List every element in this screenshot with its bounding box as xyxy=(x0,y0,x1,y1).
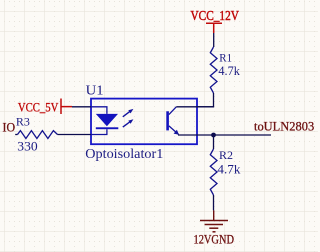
wire IO to R3 xyxy=(15,134,17,136)
phototransistor emitter xyxy=(169,126,179,134)
ground stem xyxy=(213,210,215,220)
svg-text:4.7k: 4.7k xyxy=(218,64,240,78)
emitter arrowhead xyxy=(174,130,179,135)
svg-text:IO: IO xyxy=(3,120,16,135)
svg-text:Optoisolator1: Optoisolator1 xyxy=(85,147,163,162)
wire junction to R2 xyxy=(213,135,215,149)
LED cathode lead xyxy=(91,129,107,134)
svg-text:4.7k: 4.7k xyxy=(217,162,241,176)
ground bar 4 xyxy=(213,231,216,233)
wire emitter to toULN2803 xyxy=(178,134,271,136)
ground bar 3 xyxy=(209,227,218,229)
optoisolator U1 body xyxy=(91,99,197,145)
svg-text:330: 330 xyxy=(17,140,37,154)
svg-text:U1: U1 xyxy=(86,82,104,97)
resistor R3 xyxy=(18,131,58,139)
wire collector to R1 column xyxy=(176,106,213,108)
power port VCC_12V bar symbol xyxy=(206,23,222,33)
resistor R1 xyxy=(210,47,217,93)
svg-text:toULN2803: toULN2803 xyxy=(254,119,314,134)
wire R3 to U1 pin 2 xyxy=(58,134,92,136)
resistor R2 xyxy=(210,149,217,195)
svg-text:12VGND: 12VGND xyxy=(194,233,235,247)
wire R2 to ground xyxy=(213,195,215,210)
svg-text:R3: R3 xyxy=(16,114,30,128)
junction node xyxy=(211,133,216,138)
ground bar 1 xyxy=(200,220,228,222)
phototransistor base bar xyxy=(166,111,169,130)
svg-text:R2: R2 xyxy=(219,148,233,162)
light emission arrow 1 xyxy=(123,109,134,117)
phototransistor collector xyxy=(169,107,176,115)
wire VCC_12V to R1 xyxy=(213,33,215,47)
wire VCC_5V to U1 pin 1 xyxy=(72,106,91,108)
wire R1 bottom to collector xyxy=(197,93,214,107)
svg-text:VCC_12V: VCC_12V xyxy=(191,9,239,24)
light emission arrow 2 xyxy=(123,119,134,127)
LED cathode bar xyxy=(96,127,119,129)
svg-text:VCC_5V: VCC_5V xyxy=(18,101,58,115)
svg-text:R1: R1 xyxy=(219,50,232,64)
LED anode lead xyxy=(91,107,107,114)
ground bar 2 xyxy=(205,224,223,226)
LED triangle xyxy=(96,114,118,126)
power port VCC_5V bar symbol xyxy=(61,99,72,115)
